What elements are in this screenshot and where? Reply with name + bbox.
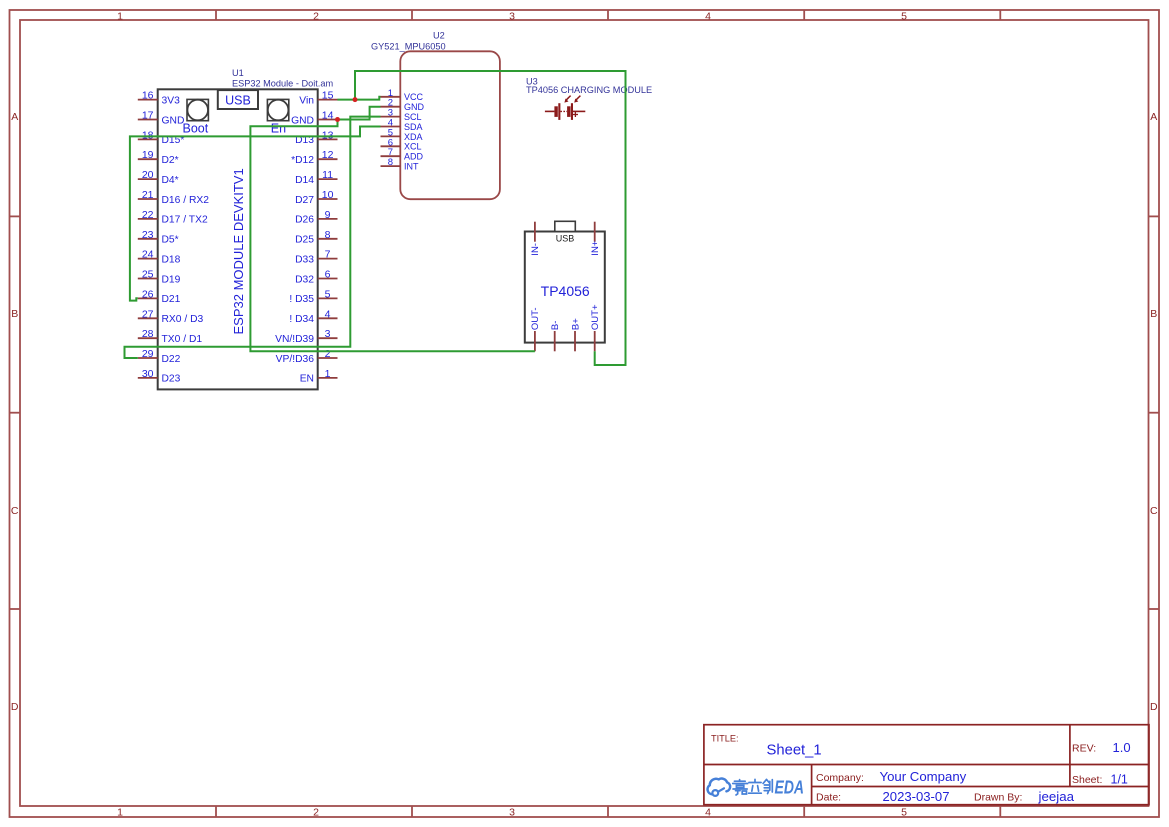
svg-text:A: A (1150, 111, 1157, 123)
svg-text:VP/!D36: VP/!D36 (276, 354, 315, 365)
svg-text:20: 20 (142, 169, 154, 181)
wire net VIN: junction to TP4056 OUT+ (355, 71, 626, 365)
svg-text:Sheet_1: Sheet_1 (767, 743, 822, 759)
svg-text:1: 1 (117, 10, 123, 22)
svg-text:U2: U2 (433, 31, 445, 41)
U1 pin 9 (D26) (295, 209, 337, 226)
U3 pin IN+ (590, 222, 601, 256)
svg-text:USB: USB (225, 94, 251, 108)
svg-text:D5*: D5* (162, 235, 179, 246)
svg-text:! D35: ! D35 (289, 294, 314, 305)
svg-text:TX0 / D1: TX0 / D1 (162, 334, 203, 345)
svg-text:ESP32 MODULE DEVKITV1: ESP32 MODULE DEVKITV1 (231, 168, 246, 334)
svg-text:23: 23 (142, 229, 154, 241)
svg-text:C: C (1150, 505, 1158, 517)
svg-text:17: 17 (142, 110, 154, 122)
svg-text:GY521_MPU6050: GY521_MPU6050 (371, 41, 446, 51)
svg-text:U1: U1 (232, 68, 244, 78)
svg-text:OUT+: OUT+ (590, 304, 601, 330)
svg-text:GND: GND (291, 115, 314, 126)
EasyEDA (JLC) logo cloud icon (708, 779, 731, 796)
U3 LED indicator symbol (545, 96, 585, 120)
U2 pin 7 (ADD) (381, 147, 424, 161)
svg-text:5: 5 (325, 288, 331, 300)
svg-text:EN: EN (300, 374, 314, 385)
svg-text:D4*: D4* (162, 175, 179, 186)
svg-text:8: 8 (325, 229, 331, 241)
svg-text:ADD: ADD (404, 152, 424, 162)
U1 pin 12 (*D12) (291, 149, 337, 166)
svg-text:SCL: SCL (404, 112, 422, 122)
U1 pin 30 (D23) (138, 368, 181, 385)
svg-text:Drawn By:: Drawn By: (974, 792, 1022, 804)
svg-text:B+: B+ (570, 318, 581, 330)
U2 pin 8 (INT) (381, 157, 420, 171)
svg-text:RX0 / D3: RX0 / D3 (162, 314, 204, 325)
wire net GND: junction to TP4056 OUT- (250, 120, 535, 352)
U1 pin 23 (D5*) (138, 229, 179, 246)
svg-text:1: 1 (117, 806, 123, 818)
svg-text:B: B (1150, 308, 1157, 320)
U1 pin 4 (! D34) (289, 308, 337, 325)
svg-text:7: 7 (325, 249, 331, 261)
U1 pin 25 (D19) (138, 269, 181, 286)
U3 TP4056 module body (525, 232, 605, 343)
component U2 GY521_MPU6050 box (400, 51, 500, 199)
svg-text:3: 3 (509, 10, 515, 22)
svg-text:26: 26 (142, 288, 154, 300)
U1 pin 22 (D17 / TX2) (138, 209, 208, 226)
svg-text:Sheet:: Sheet: (1072, 774, 1102, 786)
svg-text:IN+: IN+ (590, 240, 601, 256)
U1 pin 20 (D4*) (138, 169, 179, 186)
U1 pin 18 (D15*) (138, 129, 185, 146)
U1 pin 2 (VP/!D36) (276, 348, 338, 365)
U1 pin 21 (D16 / RX2) (138, 189, 209, 206)
svg-text:15: 15 (322, 90, 334, 102)
svg-text:D17 / TX2: D17 / TX2 (162, 215, 208, 226)
U1 pin 14 (GND) (291, 110, 337, 127)
U1 pin 1 (EN) (300, 368, 338, 385)
U1 pin 13 (D13) (295, 129, 337, 146)
svg-text:D25: D25 (295, 235, 314, 246)
wire net SDA: U2.4 to U1.26 D21 (130, 127, 381, 301)
svg-text:8: 8 (388, 157, 393, 168)
svg-text:REV:: REV: (1072, 743, 1096, 755)
svg-text:D: D (1150, 701, 1158, 713)
svg-text:27: 27 (142, 308, 154, 320)
svg-text:29: 29 (142, 348, 154, 360)
U2 pin 4 (SDA) (381, 118, 423, 132)
svg-text:IN-: IN- (530, 243, 541, 256)
component U1 ESP32 module box (158, 89, 318, 389)
U1 pin 7 (D33) (295, 249, 337, 266)
svg-text:B-: B- (550, 321, 561, 331)
svg-text:D19: D19 (162, 274, 181, 285)
svg-text:USB: USB (556, 234, 575, 244)
svg-text:D27: D27 (295, 195, 314, 206)
svg-text:22: 22 (142, 209, 154, 221)
svg-text:INT: INT (404, 162, 419, 172)
svg-text:TP4056: TP4056 (541, 283, 590, 299)
svg-text:24: 24 (142, 249, 154, 261)
svg-text:30: 30 (142, 368, 154, 380)
svg-text:OUT-: OUT- (530, 307, 541, 330)
svg-text:VN/!D39: VN/!D39 (275, 334, 314, 345)
svg-text:3: 3 (509, 806, 515, 818)
U3 pin OUT- (530, 307, 541, 351)
svg-text:! D34: ! D34 (289, 314, 314, 325)
svg-text:D23: D23 (162, 374, 181, 385)
U3 pin OUT+ (590, 304, 601, 351)
U2 pin 6 (XCL) (381, 137, 422, 151)
svg-text:D: D (11, 701, 19, 713)
U3 usb notch (555, 221, 576, 231)
svg-text:Date:: Date: (816, 792, 841, 804)
U1 En button (267, 99, 288, 120)
svg-text:2023-03-07: 2023-03-07 (883, 789, 950, 804)
U1 pin 16 (3V3) (138, 90, 180, 107)
U1 pin 17 (GND) (138, 110, 185, 127)
svg-text:jeejaa: jeejaa (1038, 789, 1075, 804)
svg-text:A: A (11, 111, 18, 123)
svg-text:1/1: 1/1 (1111, 773, 1128, 787)
svg-text:2: 2 (325, 348, 331, 360)
U2 pin 2 (GND) (381, 98, 425, 112)
wire net GND: U1.14 to U2.2 (338, 107, 381, 120)
U3 pin B- (550, 321, 561, 352)
U1 pin 10 (D27) (295, 189, 337, 206)
svg-text:TP4056 CHARGING MODULE: TP4056 CHARGING MODULE (526, 85, 652, 95)
svg-text:*D12: *D12 (291, 155, 314, 166)
svg-text:21: 21 (142, 189, 154, 201)
U1 pin 8 (D25) (295, 229, 337, 246)
svg-text:EDA: EDA (775, 777, 805, 797)
svg-text:11: 11 (322, 169, 333, 181)
svg-text:28: 28 (142, 328, 154, 340)
svg-text:TITLE:: TITLE: (711, 734, 739, 744)
U2 pin 1 (VCC) (381, 88, 424, 102)
svg-text:D21: D21 (162, 294, 181, 305)
wire net VIN: U1.15 to U2.1 (337, 97, 380, 100)
svg-text:6: 6 (325, 269, 331, 281)
junction on VIN net (353, 97, 358, 102)
title block (704, 725, 1149, 805)
svg-text:D22: D22 (162, 354, 181, 365)
svg-text:XDA: XDA (404, 132, 423, 142)
svg-text:D33: D33 (295, 254, 314, 265)
svg-text:12: 12 (322, 149, 334, 161)
svg-text:5: 5 (901, 10, 907, 22)
svg-text:Company:: Company: (816, 772, 864, 784)
U3 pin IN- (530, 222, 541, 256)
svg-text:En: En (271, 122, 286, 136)
svg-text:2: 2 (313, 10, 319, 22)
svg-text:D16 / RX2: D16 / RX2 (162, 195, 210, 206)
wire net SCL: U2.3 to U1.29 D22 (125, 117, 381, 358)
U1 pin 3 (VN/!D39) (275, 328, 337, 345)
svg-text:Boot: Boot (183, 122, 209, 136)
svg-text:D32: D32 (295, 274, 314, 285)
svg-text:C: C (11, 505, 19, 517)
svg-text:B: B (11, 308, 18, 320)
svg-text:3V3: 3V3 (162, 95, 181, 106)
U2 pin 3 (SCL) (381, 108, 422, 122)
svg-text:4: 4 (705, 10, 711, 22)
svg-text:2: 2 (313, 806, 319, 818)
svg-text:Vin: Vin (299, 95, 314, 106)
U2 pin 5 (XDA) (381, 127, 423, 141)
U1 pin 5 (! D35) (289, 288, 337, 305)
U1 pin 6 (D32) (295, 269, 337, 286)
svg-text:Your Company: Your Company (880, 769, 967, 784)
junction on GND net (335, 117, 340, 122)
U1 pin 15 (Vin) (299, 90, 337, 107)
svg-text:D18: D18 (162, 254, 181, 265)
svg-text:14: 14 (322, 110, 334, 122)
svg-text:5: 5 (901, 806, 907, 818)
svg-text:4: 4 (325, 308, 331, 320)
svg-text:16: 16 (142, 90, 154, 102)
U1 pin 28 (TX0 / D1) (138, 328, 203, 345)
svg-text:GND: GND (404, 102, 425, 112)
svg-text:XCL: XCL (404, 142, 422, 152)
U1 pin 24 (D18) (138, 249, 181, 266)
svg-text:25: 25 (142, 269, 154, 281)
U1 pin 29 (D22) (138, 348, 181, 365)
svg-text:GND: GND (162, 115, 185, 126)
U1 pin 26 (D21) (138, 288, 181, 305)
svg-text:D2*: D2* (162, 155, 179, 166)
logo text 嘉立创EDA (733, 779, 773, 795)
U1 pin 27 (RX0 / D3) (138, 308, 204, 325)
svg-text:4: 4 (705, 806, 711, 818)
svg-text:SDA: SDA (404, 122, 423, 132)
svg-text:D14: D14 (295, 175, 314, 186)
U3 pin B+ (570, 318, 581, 352)
svg-text:1: 1 (325, 368, 331, 380)
svg-text:9: 9 (325, 209, 331, 221)
svg-text:VCC: VCC (404, 92, 424, 102)
U1 Boot button (187, 99, 208, 120)
U1 USB connector box (218, 90, 258, 109)
U1 pin 19 (D2*) (138, 149, 179, 166)
svg-text:3: 3 (325, 328, 331, 340)
U1 pin 11 (D14) (295, 169, 337, 186)
svg-text:1.0: 1.0 (1113, 740, 1131, 755)
svg-text:10: 10 (322, 189, 334, 201)
svg-text:D26: D26 (295, 215, 314, 226)
svg-text:19: 19 (142, 149, 154, 161)
svg-text:ESP32 Module - Doit.am: ESP32 Module - Doit.am (232, 79, 333, 89)
